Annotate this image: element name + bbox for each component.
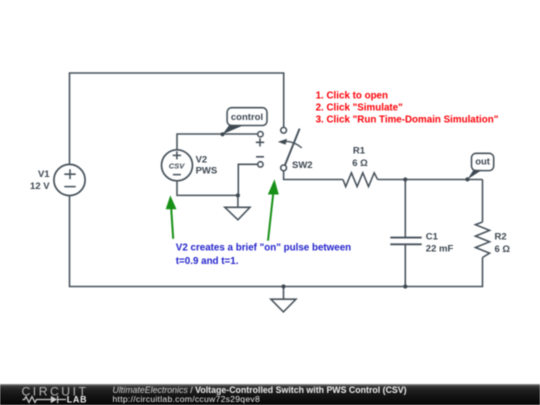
svg-text:V2 creates a brief "on" pulse: V2 creates a brief "on" pulse between	[176, 243, 351, 254]
svg-text:V2: V2	[196, 155, 208, 166]
svg-text:1. Click to open: 1. Click to open	[316, 91, 388, 102]
svg-text:3. Click "Run Time-Domain Simu: 3. Click "Run Time-Domain Simulation"	[316, 115, 499, 126]
svg-text:6 Ω: 6 Ω	[352, 158, 368, 169]
svg-text:6 Ω: 6 Ω	[495, 244, 511, 255]
svg-text:control: control	[231, 112, 263, 123]
svg-text:SW2: SW2	[292, 160, 313, 171]
svg-text:out: out	[475, 156, 491, 167]
svg-text:V1: V1	[38, 169, 50, 180]
svg-text:t=0.9 and t=1.: t=0.9 and t=1.	[176, 256, 239, 267]
svg-text:R1: R1	[353, 146, 366, 157]
svg-text:C1: C1	[426, 231, 439, 242]
svg-text:PWS: PWS	[196, 165, 218, 176]
svg-text:LAB: LAB	[67, 395, 87, 405]
svg-text:22 mF: 22 mF	[426, 244, 454, 255]
svg-text:2. Click "Simulate": 2. Click "Simulate"	[316, 103, 403, 114]
svg-text:CSV: CSV	[169, 161, 186, 170]
svg-text:12 V: 12 V	[30, 181, 50, 192]
svg-text:R2: R2	[495, 231, 507, 242]
